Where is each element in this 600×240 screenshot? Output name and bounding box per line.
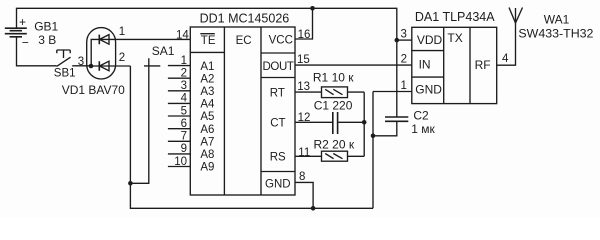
svg-text:EC: EC [236,35,252,47]
svg-text:6: 6 [181,118,187,130]
svg-text:2: 2 [119,52,125,64]
svg-text:A5: A5 [200,111,214,123]
svg-text:GB1: GB1 [34,19,58,33]
svg-text:SW433-TH32: SW433-TH32 [518,27,593,41]
svg-text:A1: A1 [200,61,214,73]
svg-text:DOUT: DOUT [263,61,294,73]
svg-text:VD1 BAV70: VD1 BAV70 [62,83,125,97]
svg-text:+: + [19,15,26,29]
svg-text:R2 20 к: R2 20 к [314,137,355,151]
svg-text:1: 1 [401,80,407,92]
svg-text:DA1 TLP434A: DA1 TLP434A [415,10,495,24]
svg-text:1: 1 [119,26,125,38]
svg-text:2: 2 [401,54,407,66]
svg-text:A8: A8 [200,149,214,161]
svg-text:1: 1 [181,55,187,67]
svg-text:VDD: VDD [417,33,443,47]
svg-text:3: 3 [78,56,84,68]
svg-text:GND: GND [415,83,442,97]
svg-text:R1 10 к: R1 10 к [313,71,354,85]
svg-text:RT: RT [270,87,285,99]
svg-text:10: 10 [174,156,187,168]
svg-text:C2: C2 [413,109,429,123]
svg-text:WA1: WA1 [544,13,570,27]
svg-text:15: 15 [297,54,310,66]
svg-text:DD1 MC145026: DD1 MC145026 [200,11,290,25]
svg-text:5: 5 [181,105,187,117]
svg-text:A7: A7 [200,137,214,149]
svg-text:3 В: 3 В [38,33,56,47]
svg-text:A2: A2 [200,73,214,85]
svg-text:C1 220: C1 220 [314,99,353,113]
svg-text:VCC: VCC [269,34,293,46]
svg-text:3: 3 [401,29,407,41]
svg-text:3: 3 [181,80,187,92]
svg-text:14: 14 [176,30,189,42]
svg-text:−: − [22,35,29,49]
svg-text:TX: TX [447,31,462,45]
svg-text:A6: A6 [200,124,214,136]
svg-text:4: 4 [502,53,509,65]
svg-text:IN: IN [419,57,431,71]
svg-text:2: 2 [181,68,187,80]
svg-text:A4: A4 [200,99,215,111]
svg-text:9: 9 [181,143,187,155]
svg-text:8: 8 [299,171,305,183]
svg-text:13: 13 [297,81,310,93]
svg-text:1 мк: 1 мк [411,122,435,136]
svg-text:4: 4 [181,93,188,105]
svg-text:TE: TE [201,35,216,47]
svg-text:16: 16 [298,29,311,41]
svg-text:GND: GND [265,178,291,190]
svg-text:RS: RS [270,152,286,164]
svg-text:SB1: SB1 [54,68,76,80]
svg-text:12: 12 [298,112,311,124]
svg-text:CT: CT [270,118,285,130]
svg-text:7: 7 [181,131,187,143]
svg-text:A9: A9 [200,162,214,174]
svg-text:SA1: SA1 [152,44,175,58]
svg-text:11: 11 [298,147,310,159]
svg-text:A3: A3 [200,86,214,98]
svg-text:RF: RF [475,58,491,72]
